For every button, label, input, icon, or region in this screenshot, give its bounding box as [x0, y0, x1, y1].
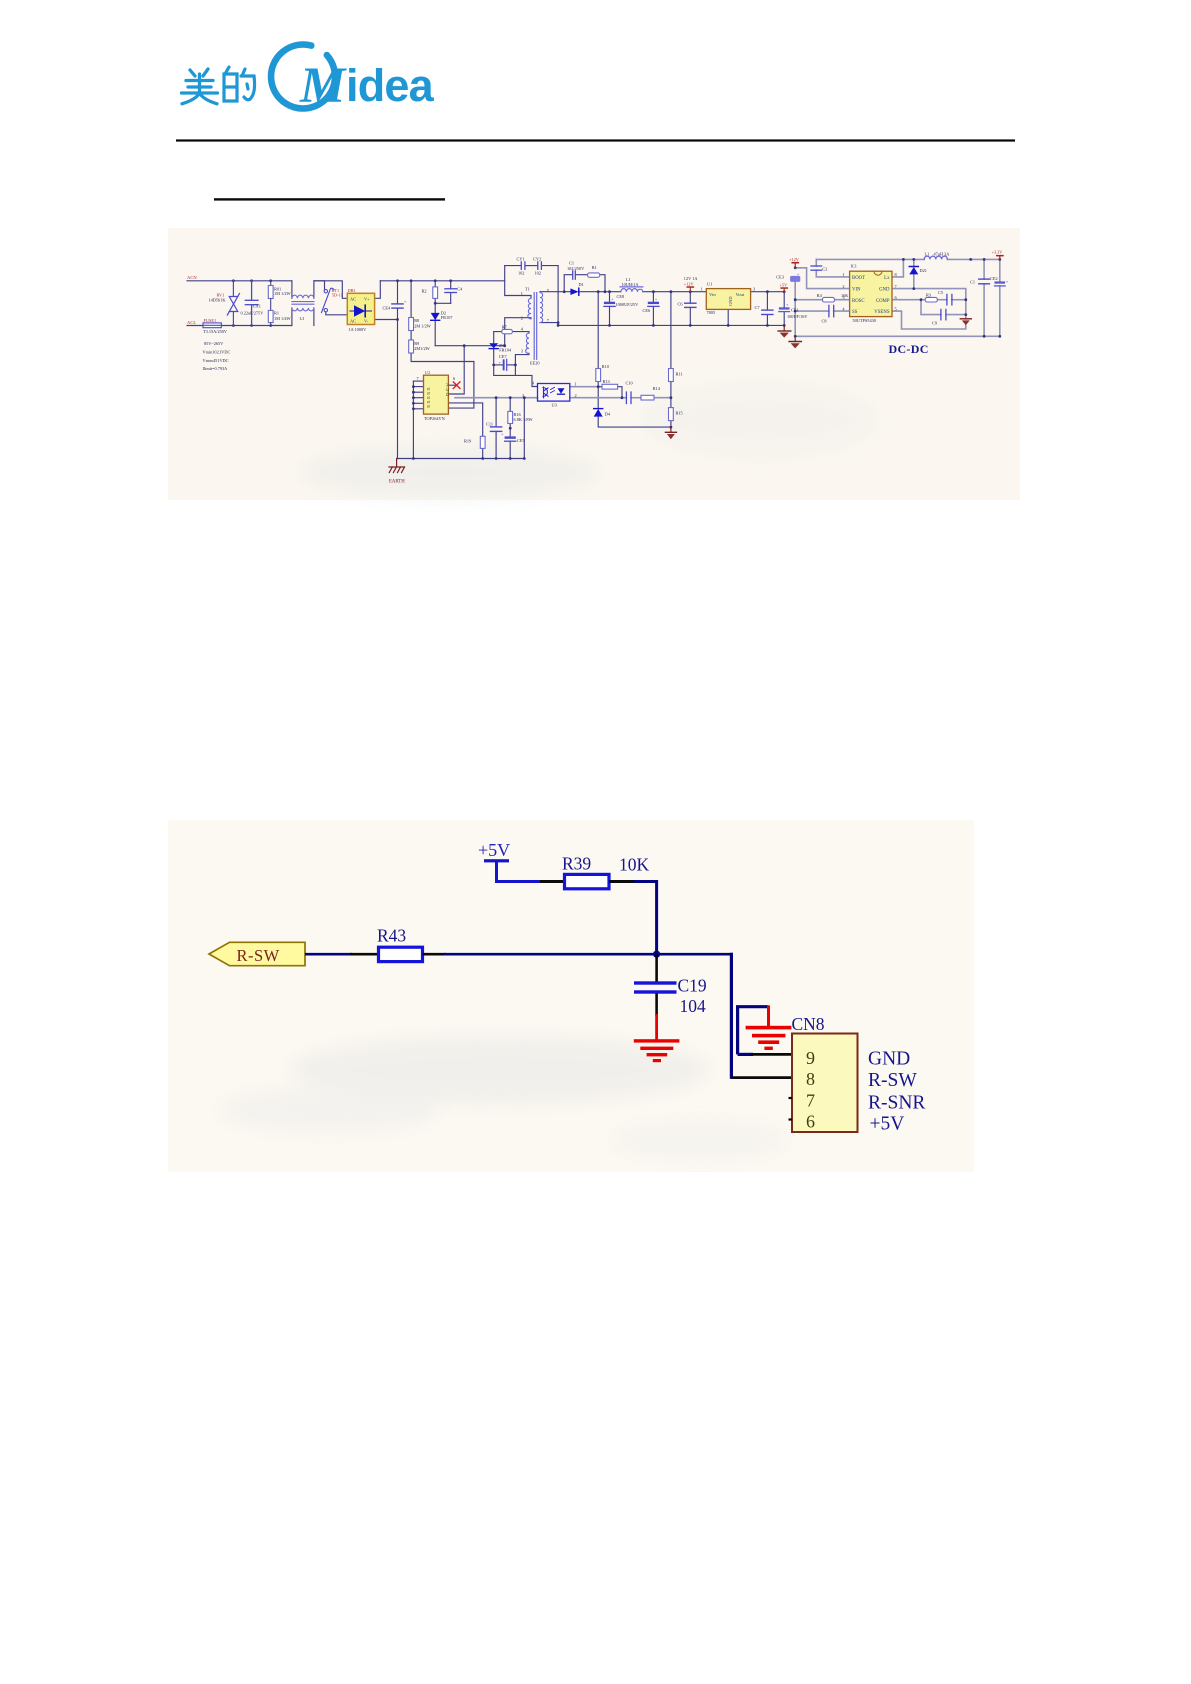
capacitor C2	[811, 266, 822, 270]
svg-text:CY1: CY1	[517, 256, 525, 261]
svg-text:10UH/1A: 10UH/1A	[622, 282, 640, 287]
svg-text:C7: C7	[755, 305, 761, 310]
wire CE6 column	[652, 292, 654, 302]
wire C4 column	[450, 281, 452, 289]
wire sec ground rail	[558, 324, 784, 326]
svg-text:+12V: +12V	[789, 257, 800, 262]
svg-text:idea: idea	[346, 60, 435, 111]
svg-text:1A 1000V: 1A 1000V	[349, 327, 368, 332]
resistor R16	[508, 411, 513, 423]
svg-text:D C V: D C V	[445, 382, 451, 396]
svg-text:Ilimit=0.793A: Ilimit=0.793A	[203, 366, 229, 371]
svg-text:T1: T1	[525, 287, 530, 292]
wire aux gnd loop	[494, 365, 538, 387]
capacitor CE6	[648, 297, 659, 307]
svg-text:47uH 3A: 47uH 3A	[934, 252, 951, 257]
wire CY riser	[505, 266, 531, 299]
svg-text:R-SW: R-SW	[237, 946, 280, 965]
capacitor C4	[445, 289, 457, 293]
resistor R9	[409, 340, 414, 353]
svg-text:GND: GND	[728, 296, 733, 306]
wire comp row	[892, 299, 925, 301]
svg-text:+: +	[499, 360, 502, 365]
diode D3	[489, 343, 498, 348]
capacitor CE5	[501, 432, 516, 442]
capacitor C7	[762, 310, 773, 314]
resistor R1	[268, 310, 273, 325]
svg-text:R1: R1	[274, 311, 279, 316]
svg-text:+5V: +5V	[780, 283, 789, 288]
wire aux top	[512, 332, 529, 334]
wire U1 pin2	[727, 309, 729, 325]
wire D3 to node	[493, 349, 495, 365]
svg-text:1: 1	[521, 291, 523, 296]
capacitor C1	[573, 271, 576, 279]
wire CE1 column	[783, 292, 785, 308]
resistor R11	[669, 369, 674, 382]
capacitor CE4	[392, 299, 407, 308]
svg-text:R39: R39	[562, 854, 591, 874]
svg-text:R11: R11	[676, 371, 683, 376]
svg-text:L3: L3	[300, 316, 305, 321]
wire C8 row	[795, 310, 829, 312]
svg-text:U1: U1	[707, 282, 712, 287]
svg-text:8: 8	[895, 272, 897, 277]
wire gnd stem	[767, 1006, 770, 1028]
svg-text:50UTPS5430: 50UTPS5430	[853, 318, 876, 323]
svg-text:+: +	[1006, 279, 1009, 284]
choke L3	[292, 295, 314, 311]
wire sec pin7	[540, 322, 558, 324]
capacitor CY2	[538, 262, 542, 269]
svg-text:R43: R43	[377, 926, 406, 946]
svg-text:3: 3	[753, 286, 755, 291]
thermistor RT1	[322, 288, 334, 312]
svg-text:R-SW: R-SW	[868, 1070, 917, 1091]
wire RT1 to DB1	[326, 312, 348, 315]
wire DC+ rail	[380, 280, 504, 282]
svg-text:CX1: CX1	[253, 304, 261, 309]
wire C11 column	[495, 398, 497, 427]
resistor R13	[602, 384, 618, 389]
svg-text:R-SNR: R-SNR	[868, 1093, 925, 1114]
wire R10 column	[597, 292, 599, 369]
svg-text:1: 1	[842, 272, 844, 277]
wire CE4 column	[397, 281, 399, 304]
svg-text:CE8: CE8	[617, 294, 625, 299]
svg-text:10K: 10K	[619, 855, 650, 875]
svg-text:+3.3V: +3.3V	[992, 250, 1004, 255]
svg-text:C4: C4	[457, 287, 463, 292]
svg-text:CE4: CE4	[383, 305, 391, 310]
svg-text:R13: R13	[603, 379, 610, 384]
svg-text:+: +	[404, 299, 407, 304]
capacitor CY1	[521, 262, 525, 269]
svg-text:Vout: Vout	[736, 292, 745, 297]
capacitor C1b	[979, 279, 990, 284]
wire Lx riser	[892, 259, 903, 277]
wire vsens	[892, 311, 966, 329]
wire CE2 column	[999, 259, 1001, 281]
svg-text:BOOT: BOOT	[852, 276, 865, 281]
svg-text:1000UF/25V: 1000UF/25V	[616, 302, 640, 307]
svg-text:1M 1/4W: 1M 1/4W	[274, 316, 292, 321]
capacitor C19	[634, 981, 677, 993]
svg-text:CE7: CE7	[499, 354, 507, 359]
resistor R01	[268, 281, 273, 311]
svg-text:+12V: +12V	[684, 281, 695, 286]
wire snubber	[564, 275, 572, 292]
wire R13 branch	[598, 386, 602, 388]
svg-text:M: M	[299, 58, 347, 114]
wire dcdc bottom rail	[795, 335, 1000, 337]
resistor R4	[822, 297, 834, 302]
svg-text:+5V: +5V	[478, 840, 510, 860]
svg-text:102: 102	[518, 271, 524, 276]
svg-text:R10: R10	[602, 364, 609, 369]
ground CN8	[746, 1026, 792, 1050]
wire CE7 row	[494, 364, 503, 366]
wire DB1 V-	[375, 319, 398, 321]
svg-text:2: 2	[575, 393, 577, 398]
power flag +3.3V	[996, 255, 1004, 260]
power flag +12V dcdc	[791, 262, 799, 268]
resistor R14	[641, 395, 654, 400]
power flag +5V	[478, 840, 510, 882]
svg-text:L1: L1	[925, 252, 930, 257]
capacitor C11	[491, 427, 502, 432]
wire L3 top riser	[291, 281, 293, 298]
svg-text:Vmin102.IVDC: Vmin102.IVDC	[203, 350, 231, 355]
svg-text:CE3: CE3	[776, 274, 784, 279]
svg-text:6.8K 1/8W: 6.8K 1/8W	[514, 417, 534, 422]
svg-text:2M1/2W: 2M1/2W	[414, 346, 430, 351]
svg-text:C8: C8	[822, 318, 827, 323]
resistor R3	[925, 297, 937, 302]
wire 5V rail	[751, 291, 785, 293]
wire dcdc mid column	[794, 282, 796, 336]
no-connect X on pin6	[453, 382, 460, 389]
svg-text:ACL: ACL	[187, 320, 196, 325]
svg-text:DC-DC: DC-DC	[889, 342, 929, 356]
svg-text:6: 6	[806, 1111, 815, 1131]
svg-text:+: +	[655, 297, 658, 302]
svg-text:+: +	[786, 302, 789, 307]
svg-text:R4: R4	[817, 293, 823, 298]
svg-text:DB1: DB1	[348, 288, 356, 293]
U3 led	[558, 388, 565, 394]
wire D2b column	[913, 259, 915, 266]
IC1 TPS5430	[850, 271, 892, 316]
wire C19 to ground	[655, 994, 658, 1017]
svg-text:C9: C9	[932, 321, 937, 326]
wire R16 CE5 column	[509, 398, 511, 412]
wire drain	[448, 346, 464, 394]
wire top rail to DB1	[314, 281, 347, 299]
earth symbol EARTH	[389, 459, 405, 473]
svg-text:5: 5	[547, 288, 549, 293]
svg-text:R15: R15	[676, 410, 683, 415]
svg-text:C19: C19	[678, 976, 707, 996]
svg-text:CN8: CN8	[792, 1014, 825, 1034]
wire R4 row	[795, 299, 822, 301]
svg-text:D1: D1	[579, 282, 584, 287]
regulator U1 7805	[706, 289, 750, 310]
wire C1b column	[983, 259, 985, 279]
svg-text:COMP: COMP	[876, 299, 890, 304]
svg-text:1M 1/2W: 1M 1/2W	[274, 291, 292, 296]
wire CY drop	[557, 266, 559, 326]
wire boot top line	[816, 258, 903, 260]
T1 primary winding	[528, 298, 531, 318]
wire primary ground rail	[397, 458, 525, 460]
svg-text:CE1: CE1	[791, 308, 799, 313]
svg-text:+: +	[501, 432, 504, 437]
wire gnd loop CN8	[738, 1007, 769, 1055]
capacitor CE7	[499, 359, 507, 370]
svg-text:D21: D21	[920, 268, 927, 273]
capacitor CE2	[995, 279, 1009, 286]
resistor R39	[565, 874, 610, 888]
svg-text:9: 9	[806, 1048, 815, 1068]
transformer T1 core	[534, 293, 537, 360]
svg-text:T3.15A/250V: T3.15A/250V	[203, 329, 228, 334]
schematic1 text labels	[187, 250, 1003, 485]
wire IC1 gnd row	[892, 289, 966, 319]
svg-text:5: 5	[895, 306, 897, 311]
svg-text:GND: GND	[868, 1049, 910, 1070]
capacitor C5	[947, 294, 952, 305]
svg-text:7: 7	[806, 1091, 815, 1111]
power flag +12V	[687, 286, 695, 291]
junction dots	[232, 258, 1001, 460]
svg-text:ACN: ACN	[187, 275, 197, 280]
wire pin6 stub	[448, 384, 456, 386]
wire ACL bottom rail	[187, 325, 203, 327]
wire ACN top rail	[187, 280, 292, 282]
svg-text:2M 1/2W: 2M 1/2W	[414, 323, 432, 328]
svg-text:SS: SS	[852, 310, 858, 315]
svg-text:14D561K: 14D561K	[209, 298, 227, 303]
resistor R43	[379, 947, 423, 961]
logo glyph DE	[224, 67, 255, 101]
svg-text:EARTH: EARTH	[389, 480, 405, 485]
wire U3 return drop	[523, 398, 525, 459]
svg-text:AC: AC	[350, 296, 356, 301]
wire 12V rail	[643, 291, 707, 293]
wire CE8 column	[609, 292, 611, 302]
ground C19	[634, 1039, 680, 1062]
svg-text:85V~265V: 85V~265V	[204, 341, 224, 346]
resistor R10	[596, 369, 601, 382]
svg-text:C10: C10	[626, 380, 633, 385]
svg-text:2: 2	[842, 284, 844, 289]
wire boot cap	[815, 259, 817, 266]
svg-text:3: 3	[522, 393, 524, 398]
wire primary pin2	[505, 318, 531, 346]
wire R43 to node	[423, 953, 447, 956]
svg-text:AC: AC	[350, 319, 356, 324]
svg-text:FUSE1: FUSE1	[204, 318, 217, 323]
wire dcdc output line	[903, 258, 924, 260]
resistor R2	[433, 287, 438, 299]
resistor R7	[502, 329, 513, 333]
svg-text:C11: C11	[486, 422, 493, 427]
svg-text:Lx: Lx	[884, 276, 890, 281]
wire R6 R9 column	[410, 281, 412, 318]
capacitor CE1	[779, 302, 790, 311]
svg-text:1: 1	[701, 286, 703, 291]
svg-text:102: 102	[535, 271, 541, 276]
capacitor C6	[685, 303, 696, 307]
svg-text:+5V: +5V	[870, 1114, 905, 1135]
svg-text:V+: V+	[364, 296, 370, 301]
resistor R8	[409, 318, 414, 331]
svg-text:100UF/16V: 100UF/16V	[787, 314, 808, 319]
wire U2 left bus	[412, 381, 414, 458]
resistor R15	[669, 408, 674, 421]
logo glyph MEI	[182, 69, 218, 104]
svg-text:FR104: FR104	[499, 348, 512, 353]
svg-text:C2: C2	[822, 266, 827, 271]
diode D2	[431, 313, 440, 320]
node junction	[653, 951, 660, 958]
wire sec top to D1	[540, 291, 570, 293]
T1 aux winding	[526, 333, 529, 353]
svg-text:R7: R7	[502, 324, 508, 329]
pin 7 stub	[789, 1097, 793, 1099]
wire node to CN8 pin8	[657, 953, 733, 956]
svg-text:8: 8	[806, 1069, 815, 1089]
ground dcdc	[789, 336, 801, 348]
varistor RV1	[227, 281, 239, 326]
svg-text:C5: C5	[938, 290, 943, 295]
capacitor C10	[626, 392, 631, 404]
logo circle arc	[271, 45, 335, 109]
capacitor C8	[829, 305, 834, 316]
resistor R1s	[588, 273, 600, 277]
capacitor CE8	[604, 297, 615, 307]
svg-text:16K: 16K	[841, 293, 849, 298]
resistor R19	[480, 436, 485, 448]
svg-text:IC1: IC1	[851, 264, 857, 269]
optocoupler U3	[538, 384, 570, 402]
wire R19 branch	[448, 403, 482, 436]
svg-text:U2: U2	[425, 370, 430, 375]
wire +5V to R39	[495, 880, 541, 883]
wire R11 column	[670, 292, 672, 369]
power flag +5V	[780, 287, 788, 291]
svg-text:TOP264VN: TOP264VN	[424, 416, 445, 421]
ground fb	[665, 427, 676, 439]
svg-text:ROSC: ROSC	[852, 299, 865, 304]
ground comp	[960, 319, 971, 326]
wire R2 column	[434, 281, 436, 287]
svg-text:D4: D4	[605, 412, 611, 417]
svg-text:+: +	[611, 297, 614, 302]
wire D4 branch	[597, 387, 599, 409]
wire D1 out	[579, 291, 621, 293]
wire R39 to corner	[609, 880, 636, 883]
wire C6 column	[689, 292, 691, 304]
port flag R-SW	[209, 942, 305, 965]
svg-text:CY2: CY2	[533, 256, 541, 261]
wire clamp node	[435, 345, 505, 347]
bridge DB1	[347, 293, 374, 324]
capacitor C9	[941, 309, 946, 319]
svg-text:R1: R1	[592, 265, 597, 270]
svg-text:Vin: Vin	[709, 292, 716, 297]
capacitor CX1	[245, 281, 258, 326]
capacitor CE3	[790, 271, 800, 282]
svg-text:5D-11: 5D-11	[332, 293, 343, 298]
wire U2 to U3 feedback rail	[455, 397, 538, 399]
inductor L1	[620, 287, 643, 292]
zener D4	[594, 409, 603, 417]
diode D1	[570, 288, 578, 295]
wire CY line	[505, 265, 521, 267]
inductor L1 dcdc	[924, 256, 947, 259]
svg-text:CE5: CE5	[517, 438, 525, 443]
svg-text:R3: R3	[926, 292, 931, 297]
svg-text:FR107: FR107	[441, 315, 454, 320]
wire L3 bottom riser	[291, 308, 293, 326]
svg-text:102/250V: 102/250V	[567, 266, 585, 271]
wire aux pin3	[515, 353, 529, 365]
fuse FUSE1	[203, 323, 221, 328]
svg-text:3: 3	[521, 348, 523, 353]
svg-text:2: 2	[521, 316, 523, 321]
svg-text:U3: U3	[552, 403, 557, 408]
svg-text:C1: C1	[970, 279, 975, 284]
svg-text:1: 1	[575, 381, 577, 386]
title underline	[214, 198, 445, 200]
wire node to C19	[655, 954, 658, 982]
ground sec	[778, 325, 791, 337]
wire U3 pin1 row	[570, 386, 598, 388]
wire DB1 V+ riser	[375, 281, 381, 299]
svg-text:104: 104	[680, 996, 707, 1016]
diode D21	[909, 267, 918, 275]
svg-text:S S S S S: S S S S S	[426, 388, 431, 408]
wire U3 pin2 row	[570, 397, 627, 399]
svg-text:VIN: VIN	[852, 288, 861, 293]
svg-text:EE20: EE20	[530, 360, 540, 365]
IC U2 TOP264VN	[424, 375, 452, 414]
svg-text:CE6: CE6	[643, 308, 651, 313]
wire flag to R43	[305, 953, 352, 956]
svg-text:7805: 7805	[707, 310, 716, 315]
wire C7 column	[766, 292, 768, 310]
svg-text:V-: V-	[364, 319, 369, 324]
header rule	[176, 139, 1015, 141]
svg-text:Vmax451VDC: Vmax451VDC	[203, 358, 229, 363]
svg-text:0.22uF/275V: 0.22uF/275V	[241, 311, 265, 316]
svg-text:R19: R19	[464, 438, 471, 443]
wire C9 row	[921, 300, 941, 315]
svg-text:VSENS: VSENS	[874, 310, 890, 315]
connector CN8	[789, 1014, 858, 1132]
pin 6 stub	[789, 1118, 793, 1120]
svg-text:R14: R14	[653, 386, 661, 391]
svg-text:CE2: CE2	[990, 276, 998, 281]
svg-text:R2: R2	[422, 289, 427, 294]
svg-text:+: +	[797, 271, 800, 276]
svg-text:GND: GND	[879, 288, 890, 293]
wire DCDC vin	[795, 268, 849, 289]
T1 secondary winding	[540, 293, 543, 323]
svg-text:C1: C1	[569, 261, 574, 266]
